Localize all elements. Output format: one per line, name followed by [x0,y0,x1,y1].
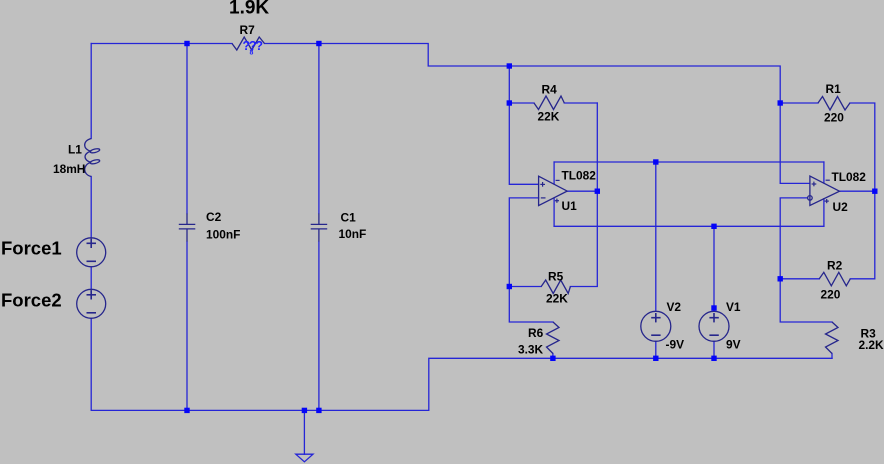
svg-text:U1: U1 [562,199,578,213]
svg-text:220: 220 [824,111,844,125]
svg-text:R1: R1 [826,82,842,96]
svg-text:R6: R6 [528,326,544,340]
svg-text:V1: V1 [726,300,741,314]
svg-text:C1: C1 [341,211,357,225]
svg-text:-9V: -9V [666,338,685,352]
svg-text:Force1: Force1 [1,238,62,259]
svg-text:R2: R2 [827,259,843,273]
svg-text:Force2: Force2 [1,290,62,311]
svg-text:C2: C2 [206,210,222,224]
svg-text:U2: U2 [833,200,849,214]
svg-text:3.3K: 3.3K [518,343,544,357]
svg-text:V2: V2 [667,300,682,314]
svg-text:220: 220 [821,288,841,302]
svg-text:TL082: TL082 [562,169,597,183]
svg-text:9V: 9V [726,338,741,352]
svg-text:18mH: 18mH [53,162,85,176]
svg-text:1.9K: 1.9K [229,0,269,19]
svg-text:22K: 22K [538,110,560,124]
svg-text:8: 8 [250,50,254,57]
svg-text:100nF: 100nF [206,228,240,242]
svg-text:TL082: TL082 [832,170,867,184]
svg-text:R4: R4 [542,83,558,97]
svg-text:2.2K: 2.2K [859,338,884,352]
svg-text:22K: 22K [546,292,568,306]
svg-text:L1: L1 [68,143,82,157]
svg-text:R5: R5 [548,270,564,284]
svg-text:10nF: 10nF [339,227,367,241]
svg-text:R7: R7 [240,23,256,37]
